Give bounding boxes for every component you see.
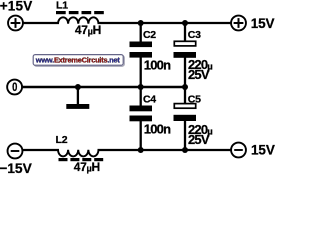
capacitor C4 <box>130 87 172 150</box>
wire top rail right segment <box>98 22 231 24</box>
terminal -15V bottom-left <box>0 144 33 176</box>
inductor L1 <box>56 0 104 37</box>
inductor L2 <box>56 134 104 174</box>
node bottom rail / C5 junction <box>182 147 188 153</box>
node top rail / C2 junction <box>138 20 144 26</box>
node top rail / C3 junction <box>182 20 188 26</box>
capacitor C3 <box>174 23 213 87</box>
wire bottom rail right segment <box>98 149 231 151</box>
svg-text:www.ExtremeCircuits.net: www.ExtremeCircuits.net <box>35 56 121 65</box>
terminal +15V top-right <box>231 16 274 32</box>
capacitor C5 <box>174 87 213 150</box>
ground <box>66 87 89 109</box>
node bottom rail / C4 junction <box>138 147 144 153</box>
terminal 0 middle-left <box>7 80 22 95</box>
node middle rail / C2-C4 junction <box>138 84 144 90</box>
node middle rail / ground junction <box>75 84 81 90</box>
capacitor C2 <box>130 23 172 87</box>
wire top rail left segment <box>23 22 59 24</box>
watermark www.ExtremeCircuits.net <box>0 0 276 175</box>
terminal +15V top-left <box>0 0 32 30</box>
terminal -15V bottom-right <box>231 143 275 158</box>
wire bottom rail left segment <box>23 149 59 151</box>
node middle rail / C3-C5 junction <box>182 84 188 90</box>
wire middle rail <box>23 86 186 88</box>
